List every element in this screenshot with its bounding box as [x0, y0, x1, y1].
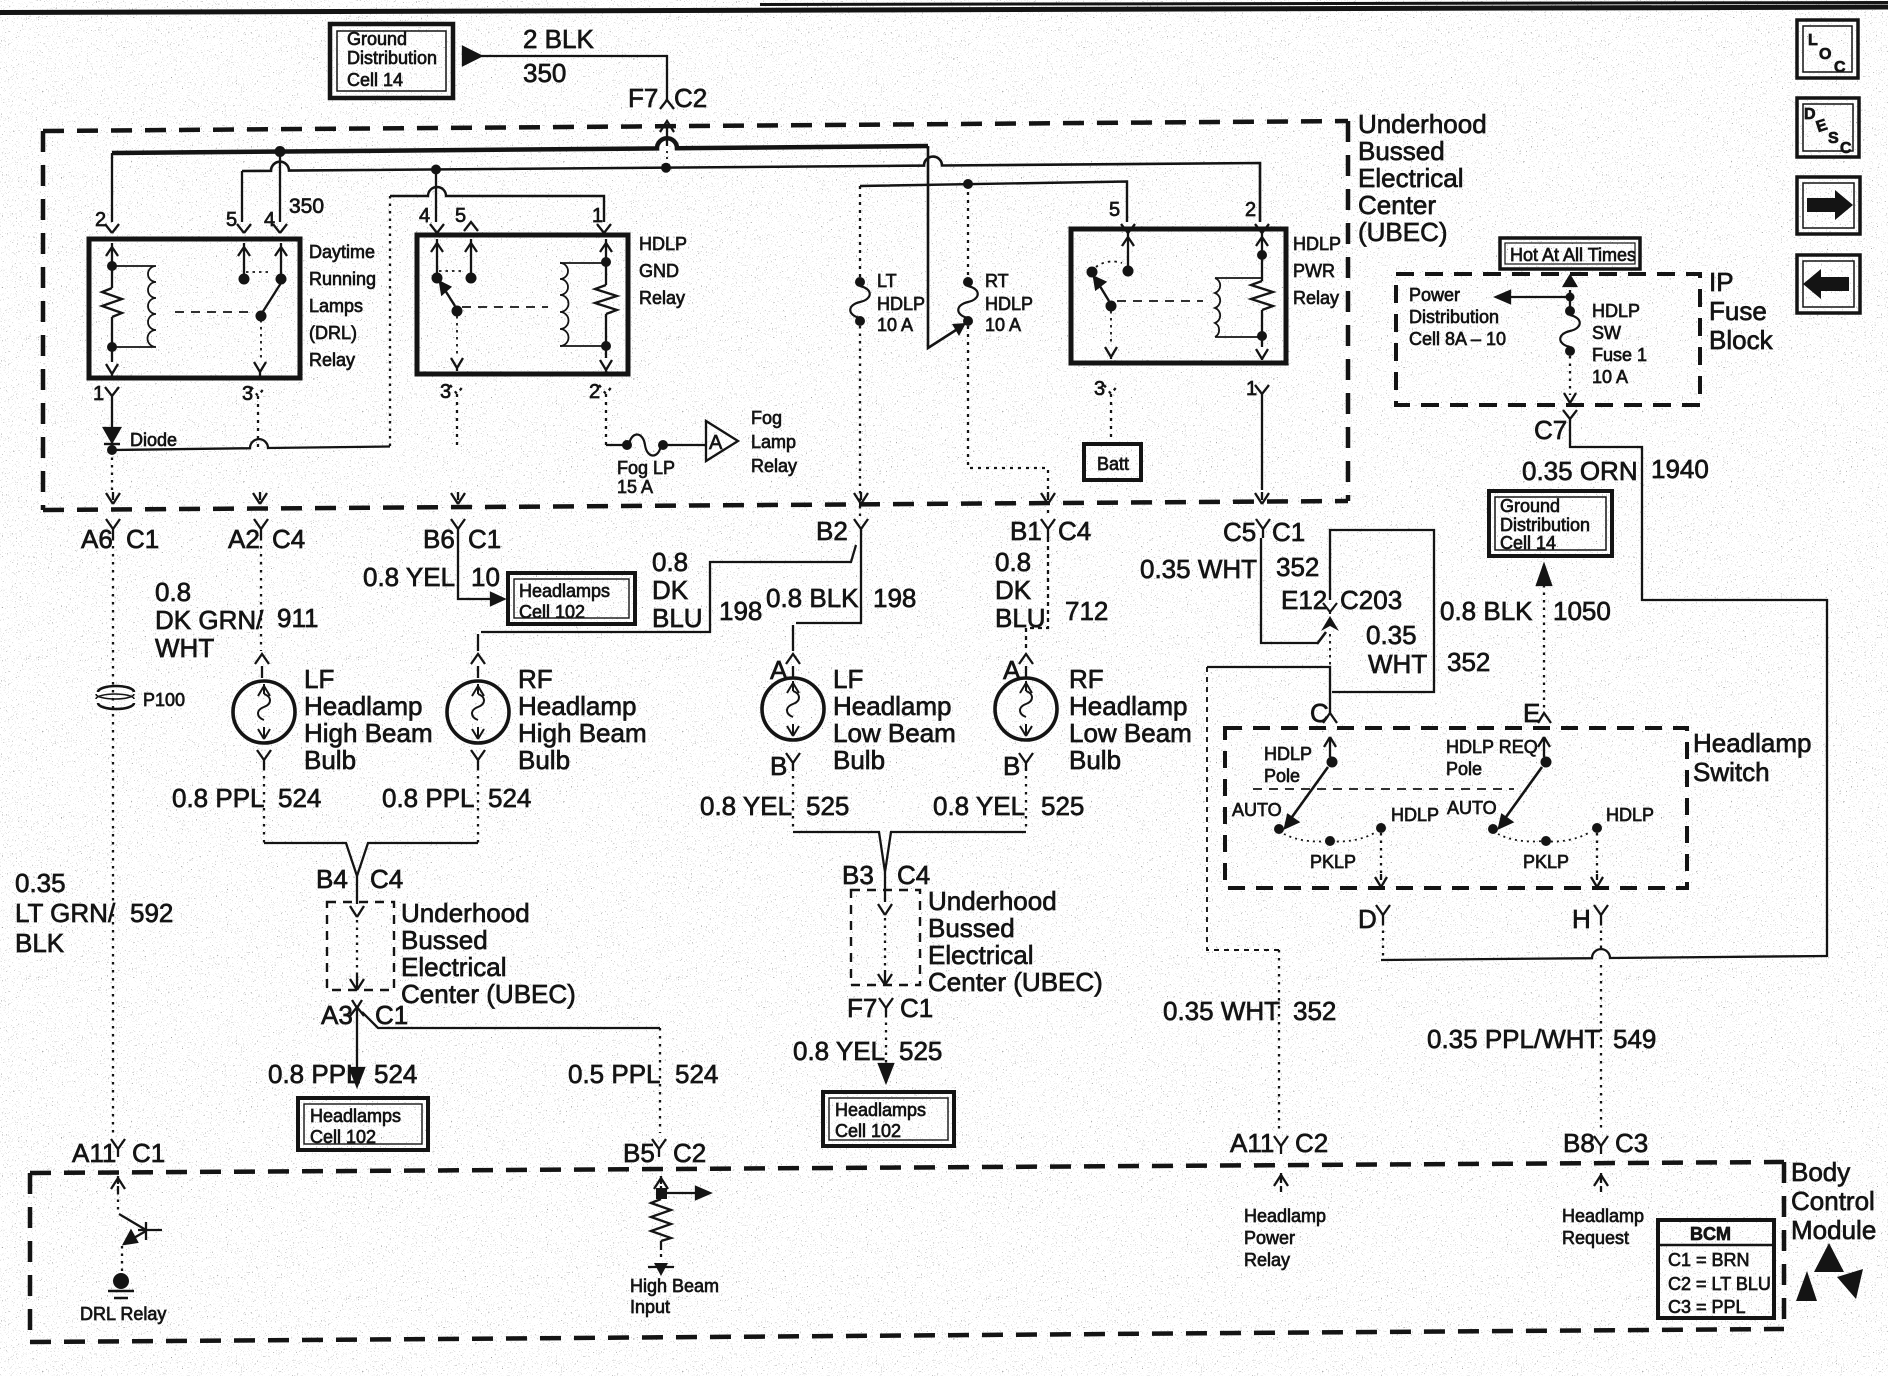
svg-text:Module: Module: [1791, 1215, 1876, 1245]
svg-text:Headlamp: Headlamp: [518, 691, 637, 721]
svg-text:HDLP: HDLP: [1592, 301, 1640, 321]
svg-text:4: 4: [264, 209, 275, 231]
svg-text:Headlamps: Headlamps: [835, 1100, 926, 1120]
svg-text:HDLP: HDLP: [877, 294, 925, 314]
svg-text:1: 1: [1246, 378, 1257, 400]
svg-text:525: 525: [899, 1036, 942, 1066]
svg-text:Low Beam: Low Beam: [1069, 718, 1192, 748]
svg-text:Ground: Ground: [1500, 496, 1560, 516]
svg-text:0.35 WHT: 0.35 WHT: [1163, 996, 1280, 1026]
svg-text:0.5 PPL: 0.5 PPL: [568, 1059, 661, 1089]
svg-text:Ground: Ground: [347, 29, 407, 49]
svg-text:524: 524: [488, 783, 531, 813]
svg-text:Headlamps: Headlamps: [310, 1106, 401, 1126]
svg-text:Headlamps: Headlamps: [519, 581, 610, 601]
svg-text:Electrical: Electrical: [401, 952, 506, 982]
svg-text:Power: Power: [1244, 1228, 1295, 1248]
svg-text:B8: B8: [1563, 1128, 1595, 1158]
svg-text:B2: B2: [816, 516, 848, 546]
svg-text:524: 524: [675, 1059, 718, 1089]
svg-text:5: 5: [455, 205, 466, 227]
svg-text:525: 525: [806, 791, 849, 821]
svg-text:Bulb: Bulb: [518, 745, 570, 775]
svg-text:HDLP: HDLP: [639, 234, 687, 254]
svg-text:RT: RT: [985, 271, 1009, 291]
svg-text:C1: C1: [375, 1000, 408, 1030]
svg-text:1: 1: [592, 205, 603, 227]
svg-text:1940: 1940: [1651, 454, 1709, 484]
svg-text:Block: Block: [1709, 325, 1774, 355]
svg-text:C4: C4: [370, 864, 403, 894]
svg-text:350: 350: [289, 195, 324, 218]
svg-text:Relay: Relay: [639, 288, 685, 308]
svg-text:Switch: Switch: [1693, 757, 1770, 787]
svg-text:Power: Power: [1409, 285, 1460, 305]
svg-text:LF: LF: [304, 664, 334, 694]
svg-text:High Beam: High Beam: [304, 718, 433, 748]
svg-text:BLU: BLU: [995, 603, 1046, 633]
svg-text:Fog: Fog: [751, 408, 782, 428]
svg-text:A3: A3: [321, 1000, 353, 1030]
svg-text:Cell 14: Cell 14: [347, 70, 403, 90]
svg-text:Underhood: Underhood: [928, 886, 1057, 916]
svg-text:DK: DK: [995, 575, 1032, 605]
svg-text:10 A: 10 A: [877, 315, 913, 335]
svg-text:SW: SW: [1592, 323, 1621, 343]
svg-text:B: B: [770, 751, 787, 781]
svg-text:10 A: 10 A: [985, 315, 1021, 335]
svg-text:AUTO: AUTO: [1232, 800, 1282, 820]
svg-text:RF: RF: [518, 664, 553, 694]
svg-text:E: E: [1523, 698, 1540, 728]
svg-text:High Beam: High Beam: [518, 718, 647, 748]
svg-text:WHT: WHT: [1368, 649, 1427, 679]
svg-text:C: C: [1310, 698, 1329, 728]
svg-text:Bulb: Bulb: [833, 745, 885, 775]
svg-text:Bussed: Bussed: [1358, 136, 1445, 166]
svg-text:PKLP: PKLP: [1523, 852, 1569, 872]
svg-text:Body: Body: [1791, 1157, 1850, 1187]
svg-text:Headlamp: Headlamp: [1693, 728, 1812, 758]
svg-text:A6: A6: [81, 524, 113, 554]
svg-text:C: C: [1834, 59, 1846, 76]
svg-text:B4: B4: [316, 864, 348, 894]
svg-text:352: 352: [1447, 647, 1490, 677]
svg-text:B6: B6: [423, 524, 455, 554]
svg-text:GND: GND: [639, 261, 679, 281]
svg-text:H: H: [1572, 904, 1591, 934]
svg-text:0.35 PPL/WHT: 0.35 PPL/WHT: [1427, 1024, 1601, 1054]
svg-text:A11: A11: [72, 1138, 116, 1168]
svg-text:O: O: [1819, 46, 1831, 63]
svg-text:E12: E12: [1281, 585, 1327, 615]
svg-text:525: 525: [1041, 791, 1084, 821]
svg-text:HDLP: HDLP: [1293, 234, 1341, 254]
svg-text:Underhood: Underhood: [401, 898, 530, 928]
svg-text:PKLP: PKLP: [1310, 852, 1356, 872]
svg-text:Distribution: Distribution: [347, 48, 437, 68]
svg-text:0.8: 0.8: [155, 577, 191, 607]
svg-text:B1: B1: [1010, 516, 1042, 546]
svg-text:A11: A11: [1230, 1128, 1274, 1158]
svg-text:Bussed: Bussed: [928, 913, 1015, 943]
svg-text:(UBEC): (UBEC): [1358, 217, 1448, 247]
svg-text:549: 549: [1613, 1024, 1656, 1054]
svg-text:S: S: [1828, 130, 1839, 147]
svg-text:P100: P100: [143, 690, 185, 710]
svg-text:C1: C1: [132, 1138, 165, 1168]
svg-text:Relay: Relay: [1293, 288, 1339, 308]
svg-text:A: A: [770, 655, 788, 685]
svg-text:0.8 PPL: 0.8 PPL: [382, 783, 475, 813]
svg-text:Request: Request: [1562, 1228, 1629, 1248]
svg-text:Bussed: Bussed: [401, 925, 488, 955]
svg-text:0.8 PPL: 0.8 PPL: [172, 783, 265, 813]
svg-text:DRL Relay: DRL Relay: [80, 1304, 166, 1324]
svg-text:0.8: 0.8: [995, 547, 1031, 577]
svg-text:HDLP: HDLP: [1391, 805, 1439, 825]
svg-text:Pole: Pole: [1264, 766, 1300, 786]
svg-text:0.8 BLK: 0.8 BLK: [1440, 596, 1533, 626]
svg-text:15 A: 15 A: [617, 477, 653, 497]
svg-text:DK: DK: [652, 575, 689, 605]
svg-text:D: D: [1358, 904, 1377, 934]
svg-text:0.8 YEL: 0.8 YEL: [700, 791, 792, 821]
svg-text:C1: C1: [900, 993, 933, 1023]
svg-text:Low Beam: Low Beam: [833, 718, 956, 748]
svg-text:B: B: [1003, 751, 1020, 781]
svg-text:Relay: Relay: [309, 350, 355, 370]
svg-text:0.8: 0.8: [652, 547, 688, 577]
svg-text:C2: C2: [674, 83, 707, 113]
svg-text:C: C: [1840, 140, 1852, 157]
svg-text:C1: C1: [1272, 517, 1305, 547]
svg-text:C2: C2: [1295, 1128, 1328, 1158]
svg-text:PWR: PWR: [1293, 261, 1335, 281]
svg-text:Running: Running: [309, 269, 376, 289]
svg-text:0.8 YEL: 0.8 YEL: [933, 791, 1025, 821]
svg-text:Headlamp: Headlamp: [304, 691, 423, 721]
svg-text:C4: C4: [272, 524, 305, 554]
svg-text:BCM: BCM: [1690, 1224, 1731, 1244]
svg-text:2: 2: [95, 209, 106, 231]
svg-text:3: 3: [440, 381, 451, 403]
svg-text:0.8 YEL: 0.8 YEL: [793, 1036, 885, 1066]
svg-text:Diode: Diode: [130, 430, 177, 450]
svg-text:HDLP: HDLP: [1264, 744, 1312, 764]
svg-text:AUTO: AUTO: [1447, 798, 1497, 818]
svg-text:F7: F7: [847, 993, 877, 1023]
svg-text:RF: RF: [1069, 664, 1104, 694]
svg-text:DK GRN/: DK GRN/: [155, 605, 264, 635]
svg-text:3: 3: [1094, 378, 1105, 400]
svg-text:712: 712: [1065, 596, 1108, 626]
svg-text:350: 350: [523, 58, 566, 88]
svg-text:0.8 PPL: 0.8 PPL: [268, 1059, 361, 1089]
svg-text:C3 = PPL: C3 = PPL: [1668, 1297, 1746, 1317]
svg-text:Lamp: Lamp: [751, 432, 796, 452]
svg-text:2: 2: [589, 381, 600, 403]
svg-text:Cell 102: Cell 102: [519, 602, 585, 622]
svg-text:0.35 WHT: 0.35 WHT: [1140, 554, 1257, 584]
svg-text:Hot At All Times: Hot At All Times: [1510, 245, 1636, 265]
svg-text:352: 352: [1276, 552, 1319, 582]
svg-text:4: 4: [419, 205, 430, 227]
svg-text:911: 911: [277, 603, 318, 633]
svg-text:Distribution: Distribution: [1409, 307, 1499, 327]
svg-text:3: 3: [242, 383, 253, 405]
svg-text:Headlamp: Headlamp: [1244, 1206, 1326, 1226]
svg-text:524: 524: [374, 1059, 417, 1089]
svg-text:1050: 1050: [1553, 596, 1611, 626]
svg-text:5: 5: [226, 209, 237, 231]
svg-text:C5: C5: [1223, 517, 1256, 547]
svg-text:0.35: 0.35: [1366, 620, 1417, 650]
svg-text:HDLP: HDLP: [985, 294, 1033, 314]
svg-text:524: 524: [278, 783, 321, 813]
svg-text:Center (UBEC): Center (UBEC): [928, 967, 1103, 997]
svg-text:C4: C4: [897, 860, 930, 890]
svg-text:(DRL): (DRL): [309, 323, 357, 343]
svg-text:Fog LP: Fog LP: [617, 458, 675, 478]
svg-text:Control: Control: [1791, 1186, 1875, 1216]
svg-text:198: 198: [719, 596, 762, 626]
svg-text:Electrical: Electrical: [928, 940, 1033, 970]
svg-text:5: 5: [1109, 199, 1120, 221]
svg-text:C4: C4: [1058, 516, 1091, 546]
svg-text:1: 1: [93, 383, 104, 405]
svg-text:Electrical: Electrical: [1358, 163, 1463, 193]
svg-text:HDLP: HDLP: [1606, 805, 1654, 825]
svg-text:592: 592: [130, 898, 173, 928]
svg-text:0.35: 0.35: [15, 868, 66, 898]
svg-text:L: L: [1808, 32, 1818, 49]
svg-text:2 BLK: 2 BLK: [523, 24, 594, 54]
svg-text:Cell 8A – 10: Cell 8A – 10: [1409, 329, 1506, 349]
svg-text:Relay: Relay: [751, 456, 797, 476]
svg-text:Headlamp: Headlamp: [1069, 691, 1188, 721]
svg-text:Input: Input: [630, 1297, 670, 1317]
svg-text:Cell 102: Cell 102: [310, 1127, 376, 1147]
svg-text:BLK: BLK: [15, 928, 65, 958]
svg-text:LF: LF: [833, 664, 863, 694]
svg-text:10 A: 10 A: [1592, 367, 1628, 387]
svg-text:10: 10: [471, 562, 500, 592]
svg-text:Cell 102: Cell 102: [835, 1121, 901, 1141]
svg-text:352: 352: [1293, 996, 1336, 1026]
svg-text:High Beam: High Beam: [630, 1276, 719, 1296]
svg-text:B3: B3: [842, 860, 874, 890]
svg-text:HDLP REQ: HDLP REQ: [1446, 737, 1538, 757]
svg-text:C7: C7: [1534, 415, 1567, 445]
svg-text:Fuse: Fuse: [1709, 296, 1767, 326]
svg-text:Lamps: Lamps: [309, 296, 363, 316]
svg-text:A: A: [1003, 655, 1021, 685]
svg-text:Center (UBEC): Center (UBEC): [401, 979, 576, 1009]
svg-text:Underhood: Underhood: [1358, 109, 1487, 139]
svg-text:C203: C203: [1340, 585, 1402, 615]
svg-text:LT GRN/: LT GRN/: [15, 898, 116, 928]
svg-text:198: 198: [873, 583, 916, 613]
svg-text:Center: Center: [1358, 190, 1436, 220]
svg-text:Pole: Pole: [1446, 759, 1482, 779]
svg-text:C1: C1: [468, 524, 501, 554]
svg-text:Distribution: Distribution: [1500, 515, 1590, 535]
svg-text:0.8 BLK: 0.8 BLK: [766, 583, 859, 613]
svg-text:A: A: [709, 432, 723, 454]
svg-text:LT: LT: [877, 271, 897, 291]
svg-text:Batt: Batt: [1097, 454, 1129, 474]
svg-text:Bulb: Bulb: [1069, 745, 1121, 775]
svg-text:B5: B5: [623, 1138, 655, 1168]
svg-text:Cell 14: Cell 14: [1500, 533, 1556, 553]
svg-text:F7: F7: [628, 83, 658, 113]
svg-text:Relay: Relay: [1244, 1250, 1290, 1270]
svg-text:C3: C3: [1615, 1128, 1648, 1158]
svg-text:0.8 YEL: 0.8 YEL: [363, 562, 455, 592]
svg-text:WHT: WHT: [155, 633, 214, 663]
svg-text:Headlamp: Headlamp: [833, 691, 952, 721]
svg-text:C1: C1: [126, 524, 159, 554]
svg-text:Headlamp: Headlamp: [1562, 1206, 1644, 1226]
svg-text:C1 = BRN: C1 = BRN: [1668, 1250, 1750, 1270]
svg-text:Bulb: Bulb: [304, 745, 356, 775]
svg-text:0.35 ORN: 0.35 ORN: [1522, 456, 1638, 486]
svg-text:Daytime: Daytime: [309, 242, 375, 262]
svg-text:Fuse 1: Fuse 1: [1592, 345, 1647, 365]
svg-text:BLU: BLU: [652, 603, 703, 633]
svg-text:C2 = LT BLU: C2 = LT BLU: [1668, 1274, 1771, 1294]
svg-text:IP: IP: [1709, 267, 1734, 297]
svg-text:2: 2: [1245, 199, 1256, 221]
svg-text:A2: A2: [228, 524, 260, 554]
svg-text:C2: C2: [673, 1138, 706, 1168]
